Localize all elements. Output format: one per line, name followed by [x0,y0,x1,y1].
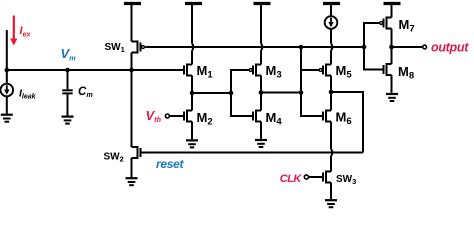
label Iex [20,25,32,38]
junction dot Vm / Ileak branch [5,68,10,73]
label SW1 [105,42,125,54]
label Ileak [19,88,37,101]
terminal output [423,45,427,49]
wire: M1 source to M2 drain (node A column) [191,76,193,111]
ground below Cm [62,117,74,124]
ground below SW3 [325,200,337,207]
label output [431,40,469,54]
junction dot feedback wire / M5-M6 gate line [299,45,304,50]
label M8 [398,64,414,82]
node A wire to M3/M4 gate line [192,92,231,94]
wire: VDD bar2 to M1 drain with hop over feedback wire [192,5,193,65]
terminal Vth [165,114,169,118]
svg-text:Iex: Iex [20,25,32,38]
bias current source [325,5,338,65]
label M2 [197,110,213,128]
transistor SW2 (reset switch NMOS, gate on right) [132,146,141,159]
junction dot Vm / Cm branch [65,68,70,73]
capacitor Cm [62,70,72,116]
wire: M4 source to ground [260,122,262,139]
label reset [156,157,184,171]
svg-text:SW1: SW1 [105,42,125,54]
transistor M4 (NMOS of inverter 1) [253,110,261,123]
transistor M2 (comparator reference NMOS) [170,110,192,123]
VDD bar 3 (M3 source rail) [254,2,271,5]
node Vm wire [7,69,184,71]
label Vth [146,108,162,124]
label CLK [280,173,303,185]
junction dot output node [389,45,394,50]
VDD bar 1 (SW1 source rail) [124,2,141,5]
current arrow Iex [10,16,17,46]
label Cm [78,86,93,99]
transistor M1 (comparator input NMOS) [184,64,192,77]
VDD bar 5 (M7 source rail) [384,2,401,5]
transistor M6 (NMOS of inverter 2) [323,110,331,123]
label M3 [266,63,282,81]
label M5 [336,63,353,81]
junction dot Vm / SW1-SW2 column [129,68,134,73]
svg-text:M4: M4 [266,110,283,128]
ground below SW2 [126,178,138,185]
junction dot node B at M3/M4 column [259,90,264,95]
wire: M2 source to ground [191,122,193,140]
svg-text:SW2: SW2 [104,152,124,164]
input stub wire for Iex [6,30,8,84]
junction dot node A at M3/M4 gate line [229,91,234,96]
VDD bar 2 (M1 drain rail) [185,2,202,5]
svg-text:M7: M7 [399,17,415,35]
transistor SW3 (clock switch NMOS) [309,171,331,184]
ground below Ileak [1,115,13,122]
svg-text:M8: M8 [398,64,414,82]
M5/M6 gate line from feedback wire [301,47,323,116]
label M7 [399,17,415,35]
ground below M2 [186,140,198,147]
junction dot feedback wire / M7-M8 gate line [362,45,367,50]
M7/M8 gate line from feedback wire [364,23,384,70]
svg-text:SW3: SW3 [336,174,356,186]
wire: SW3 source to ground [330,183,332,200]
node B wire to M5/M6 gate line [261,92,301,94]
wire: VDD bar1 down to SW1 source [131,5,133,42]
transistor M7 (output buffer PMOS) [380,5,392,30]
VDD bar 4 (bias current source rail) [323,2,340,5]
svg-text:Ileak: Ileak [19,88,37,101]
ground below M8 [386,94,398,101]
transistor SW1 (PMOS switch, gate on right with bubble) [132,41,145,54]
svg-text:CLK: CLK [280,173,303,185]
svg-text:M2: M2 [197,110,213,128]
wire: M7 drain to M8 drain through output node [391,29,393,65]
wire: M3 drain to M4 drain (node B column) [260,76,262,111]
label SW3 [336,174,356,186]
feedback wire (node B buffered) from SW1 gate to M7/M8 gate line [145,46,364,48]
svg-text:reset: reset [156,157,184,171]
current source Ileak [1,84,14,114]
svg-text:Vm: Vm [61,46,77,62]
wire: M6 source to SW3 drain with hop over reset wire [331,122,332,172]
transistor M8 (output buffer NMOS) [384,63,392,76]
junction dot node A at M1/M2 column [190,91,195,96]
label M1 [197,63,214,81]
svg-text:M1: M1 [197,63,214,81]
label M6 [336,110,352,128]
junction dot node B at M5/M6 gate line [299,90,304,95]
wire: SW1 drain down through Vm node to SW2 drain [131,53,133,148]
reset wire from SW2 gate to M5/M6 midpoint branch [141,152,364,154]
transistor M3 (PMOS of inverter 1) [249,64,261,77]
transistor M5 (current-starved PMOS of inverter 2) [319,64,331,77]
label M4 [266,110,283,128]
wire: M8 source to ground [391,75,393,93]
svg-text:M6: M6 [336,110,352,128]
wire: VDD bar3 to M3 source with hop over feedback wire [261,5,262,65]
wire: SW2 source to ground [131,158,133,177]
svg-text:output: output [431,40,469,54]
M3/M4 gate line (inverter 1 input) [231,70,253,116]
wire: M5 source to M6 drain (reset driver column) [330,76,332,111]
label Vm [61,46,77,62]
svg-text:Vth: Vth [146,108,162,124]
label SW2 [104,152,124,164]
junction dot M5/M6 midpoint [329,90,334,95]
svg-text:Cm: Cm [78,86,93,99]
svg-text:M3: M3 [266,63,282,81]
wire: M5/M6 midpoint to reset line [331,92,363,153]
ground below M4 [255,140,267,147]
terminal CLK [304,175,308,179]
output wire [392,46,423,48]
svg-text:M5: M5 [336,63,353,81]
